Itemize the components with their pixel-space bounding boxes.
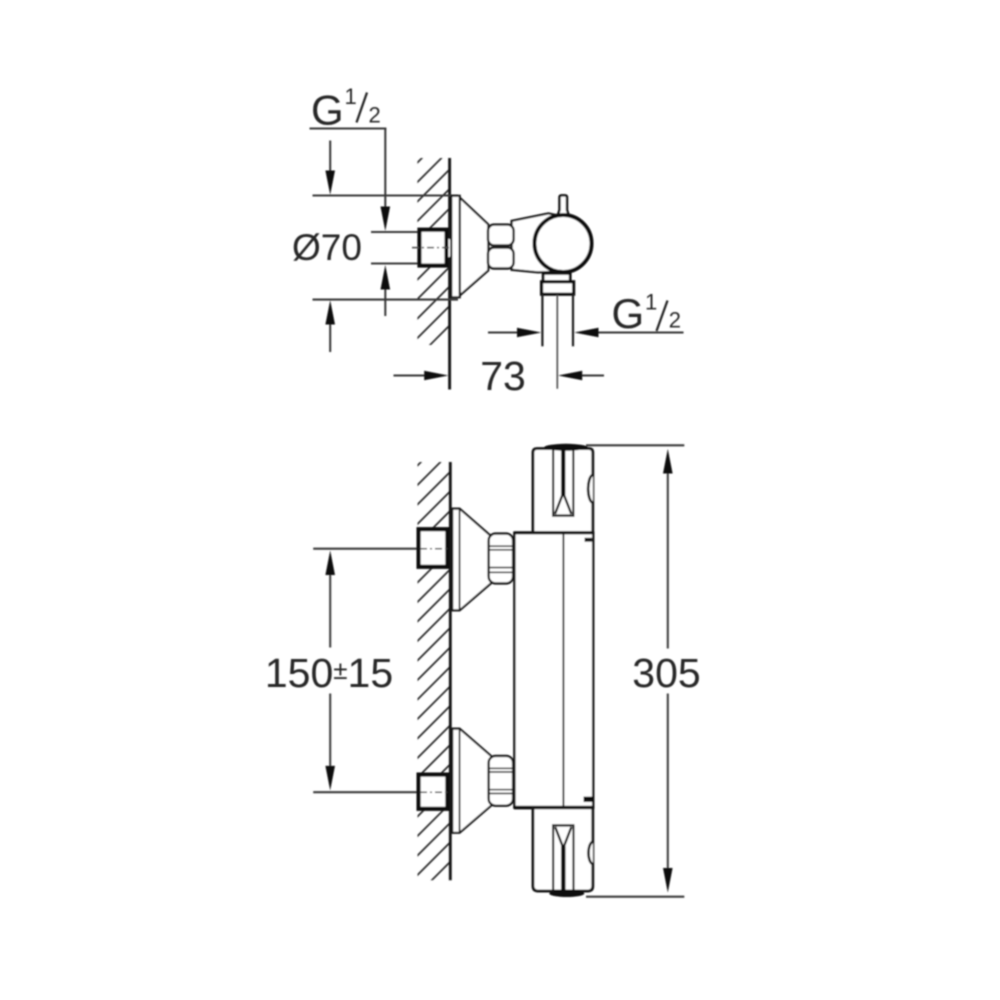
bottom nut (front view) <box>489 756 513 806</box>
svg-text:73: 73 <box>480 353 526 399</box>
O70 top arrow <box>325 141 335 195</box>
top nut (front view) <box>489 534 513 584</box>
305 extension line bottom <box>586 896 684 898</box>
150 extension line bottom (inlet centerline) <box>313 791 419 793</box>
bottom handle side button <box>588 842 592 865</box>
bottom handle grip ellipse <box>549 890 584 897</box>
wall hatch (top view) <box>405 115 465 390</box>
outlet pipe walls <box>541 294 543 346</box>
150 dim line + arrows <box>325 551 335 791</box>
barrel tick bottom <box>584 797 594 802</box>
bottom rosette (front view) <box>452 729 491 833</box>
G1/2 pipe dim right arrow <box>574 328 683 338</box>
svg-text:G: G <box>612 290 645 337</box>
bottom handle groove <box>552 825 554 889</box>
bottom union square (front view) <box>419 775 448 809</box>
73 dim right arrow <box>558 371 604 381</box>
dim extension line union top (G1/2) <box>371 231 421 233</box>
rosette cone (side view) <box>460 198 489 296</box>
knob on top of valve <box>557 195 570 218</box>
svg-text:1: 1 <box>345 84 357 109</box>
top union square (front view) <box>419 529 448 567</box>
svg-text:2: 2 <box>669 308 681 333</box>
rosette rim (side view) <box>451 196 459 297</box>
top union centerline (dash-dot) <box>420 548 450 550</box>
wall hatch (bottom view) <box>405 418 465 907</box>
G1/2 pipe dim left arrow <box>488 328 541 338</box>
hose fitting upper ring <box>543 273 570 281</box>
svg-text:G: G <box>311 86 344 133</box>
73 dim left arrow <box>394 371 449 381</box>
valve body (side view) <box>512 213 563 272</box>
svg-text:150±15: 150±15 <box>265 650 393 696</box>
305 extension line top <box>586 444 684 446</box>
svg-text:1: 1 <box>645 290 657 315</box>
O70 bottom arrow <box>325 300 335 352</box>
dim extension line rosette top (O70) <box>313 194 459 196</box>
svg-text:305: 305 <box>632 650 700 696</box>
text G1/2 (top left) <box>311 84 381 133</box>
bottom union centerline (dash-dot) <box>420 791 450 793</box>
svg-text:2: 2 <box>369 103 381 128</box>
dim extension line union bottom (G1/2) <box>371 262 421 264</box>
G1/2 lower up arrow <box>381 265 391 316</box>
barrel tick top <box>585 538 592 542</box>
wall line (bottom view) <box>449 462 452 880</box>
150 extension line top (inlet centerline) <box>313 548 419 550</box>
outlet pipe centerline <box>556 295 558 389</box>
thermostat circle (side view) <box>535 215 592 272</box>
305 dim line + arrows <box>663 449 673 893</box>
text G1/2 (right) <box>612 290 682 338</box>
top handle side button <box>588 475 593 503</box>
G1/2 leader line + down arrow <box>381 129 391 232</box>
top handle <box>533 444 593 533</box>
wall line (top view) <box>448 158 451 390</box>
union nub <box>448 238 451 258</box>
union centerline (dash-dot) <box>412 247 452 249</box>
hose fitting lower ring <box>542 282 574 294</box>
body barrel <box>514 533 594 808</box>
top rosette (front view) <box>452 509 491 611</box>
nut (side view) lower <box>488 248 514 269</box>
G1/2 underline (top left) <box>310 127 387 129</box>
top handle groove <box>552 450 554 516</box>
svg-text:Ø70: Ø70 <box>292 227 362 268</box>
union square (top view) <box>420 230 447 266</box>
bottom handle <box>533 808 593 897</box>
dim extension line rosette bottom (O70) <box>313 299 459 301</box>
top handle grip ellipse <box>544 444 588 451</box>
nut (side view) upper <box>488 225 514 246</box>
